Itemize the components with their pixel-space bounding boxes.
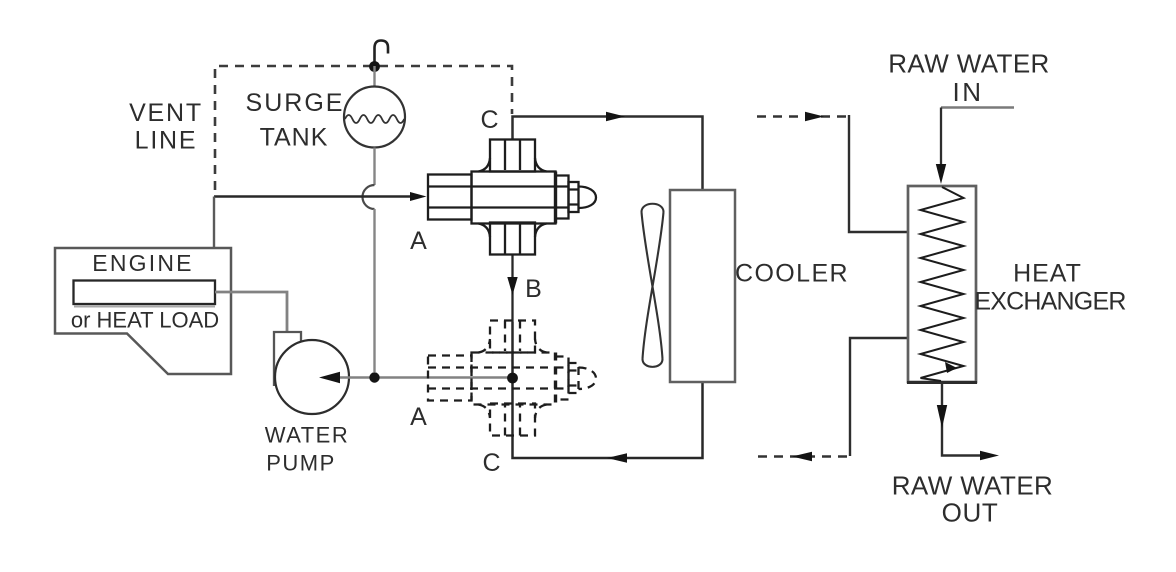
label VENT LINE	[129, 99, 203, 155]
surge tank pipe upper	[373, 66, 375, 87]
heat exchanger bottom edge	[907, 381, 977, 384]
wire dashed corner to HX upper	[849, 115, 908, 232]
heat exchanger coil zigzag	[921, 187, 964, 381]
channel lines	[428, 368, 556, 389]
svg-text:ENGINE: ENGINE	[92, 250, 193, 276]
label RAW WATER OUT	[892, 471, 1054, 528]
svg-text:OUT: OUT	[942, 498, 999, 528]
wire HX to lower dashed	[850, 338, 908, 456]
arm inner lines	[505, 321, 520, 436]
arrow raw water out down	[937, 405, 947, 428]
svg-text:A: A	[410, 227, 428, 255]
coil arrow	[945, 362, 957, 373]
right collar	[556, 357, 569, 400]
svg-text:PUMP: PUMP	[266, 451, 336, 476]
svg-text:EXCHANGER: EXCHANGER	[974, 288, 1125, 316]
valve body	[472, 353, 556, 405]
arrow into valve A	[410, 192, 427, 201]
label WATER PUMP	[265, 423, 350, 476]
surge tank circle	[344, 87, 405, 148]
wire raw water inlet	[940, 108, 942, 167]
junction dot vent	[369, 61, 380, 72]
cooler box	[670, 190, 735, 382]
right collar	[556, 176, 569, 219]
svg-text:COOLER: COOLER	[735, 260, 849, 288]
vent line dashed path	[215, 66, 512, 190]
svg-text:WATER: WATER	[265, 423, 350, 448]
thermostatic valve lower (dashed)	[428, 321, 596, 436]
svg-text:or HEAT LOAD: or HEAT LOAD	[71, 308, 219, 333]
dashed arrow upper (raw water alt)	[757, 115, 846, 117]
top arm	[490, 140, 535, 172]
surge tank pipe lowest	[373, 209, 375, 372]
bottom arm	[490, 404, 535, 436]
label HEAT EXCHANGER	[974, 260, 1125, 316]
surge tank pipe lower	[373, 148, 375, 186]
wire engine to pump	[215, 292, 287, 332]
svg-text:A: A	[410, 403, 428, 431]
right nut	[569, 363, 579, 393]
svg-text:HEAT: HEAT	[1013, 260, 1082, 288]
svg-text:C: C	[482, 449, 501, 477]
junction dot pump line	[369, 372, 379, 382]
left inlet pipe	[428, 175, 472, 220]
bottom arm	[490, 223, 535, 255]
water pump circle	[275, 340, 349, 414]
inner rect shadow	[74, 306, 215, 308]
fan symbol	[642, 204, 664, 367]
valve body	[472, 172, 556, 224]
wire valve C top to cooler	[513, 117, 703, 191]
wire lower valve vertical	[513, 322, 703, 458]
heat exchanger box	[908, 186, 976, 382]
arrow raw water in down	[936, 164, 946, 184]
junction dot lower valve center	[507, 373, 518, 384]
line jump arc	[363, 185, 375, 209]
pump inlet box	[274, 332, 301, 386]
label SURGE TANK	[246, 89, 345, 152]
svg-text:B: B	[525, 275, 543, 303]
arrow left on lower dashed	[792, 452, 812, 462]
arrow into pump	[319, 372, 340, 383]
arm inner lines	[505, 140, 520, 255]
svg-text:LINE: LINE	[135, 127, 198, 155]
svg-text:RAW WATER: RAW WATER	[892, 471, 1054, 501]
channel lines	[428, 187, 556, 208]
svg-text:SURGE: SURGE	[246, 89, 345, 117]
arrow B down	[507, 277, 517, 295]
right dome	[579, 187, 597, 209]
engine inner rectangle	[74, 281, 216, 305]
svg-text:RAW WATER: RAW WATER	[888, 49, 1050, 79]
svg-text:VENT: VENT	[129, 99, 203, 127]
label RAW WATER IN	[888, 49, 1050, 108]
wire engine to valve A	[214, 195, 414, 197]
svg-text:C: C	[480, 106, 499, 134]
wire vent corner down to engine	[213, 197, 215, 249]
raw water in underline	[941, 106, 1014, 108]
fillets	[479, 339, 547, 418]
vent hook	[375, 41, 389, 63]
dashed arrow lower	[758, 455, 847, 457]
svg-text:IN: IN	[953, 77, 984, 107]
wire pump suction line	[334, 376, 512, 379]
right dome	[579, 368, 597, 390]
arrow bottom line left	[607, 453, 627, 463]
fillets	[479, 158, 547, 237]
wire raw water out	[942, 382, 981, 456]
svg-text:TANK: TANK	[260, 124, 329, 152]
thermostatic valve upper (solid)	[428, 140, 596, 255]
wire valve B between valves	[511, 254, 513, 322]
top arm	[490, 321, 535, 353]
arrow top line right	[606, 112, 625, 122]
engine box	[55, 248, 231, 374]
surge tank water level wave	[345, 115, 404, 123]
arrow right on upper dashed	[805, 112, 824, 122]
left inlet pipe	[428, 356, 472, 401]
right nut	[569, 182, 579, 212]
arrow raw water out right	[980, 451, 999, 461]
